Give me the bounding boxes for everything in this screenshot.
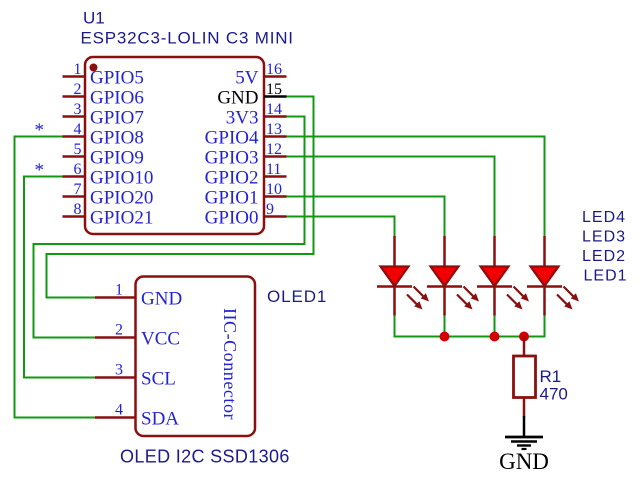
wire GPIO0 to LED1: [287, 217, 395, 237]
svg-text:*: *: [35, 160, 45, 181]
LED D2: [427, 236, 479, 316]
svg-text:6: 6: [74, 161, 82, 178]
svg-text:10: 10: [266, 181, 282, 198]
svg-text:GPIO20: GPIO20: [90, 187, 153, 208]
svg-text:ESP32C3-LOLIN C3 MINI: ESP32C3-LOLIN C3 MINI: [81, 29, 294, 48]
pin 9 GPIO0: [205, 201, 287, 228]
svg-text:IIC-Connector: IIC-Connector: [220, 308, 240, 420]
svg-text:14: 14: [266, 101, 282, 118]
svg-text:11: 11: [266, 161, 281, 178]
svg-text:LED1: LED1: [584, 268, 628, 285]
svg-text:LED2: LED2: [582, 248, 626, 265]
svg-text:470: 470: [540, 385, 568, 404]
pin 3 GPIO7: [63, 101, 144, 128]
svg-text:SCL: SCL: [141, 368, 176, 389]
svg-text:VCC: VCC: [141, 328, 180, 349]
pin 4 SDA (OLED): [95, 402, 179, 430]
svg-text:GND: GND: [217, 87, 258, 108]
pin 11 GPIO2: [205, 161, 287, 188]
pin 10 GPIO1: [205, 181, 287, 208]
pin 5 GPIO9: [63, 141, 144, 168]
wire GPIO3 to LED3: [287, 157, 495, 237]
svg-text:GPIO8: GPIO8: [90, 127, 144, 148]
connector OLED1 body: [136, 277, 256, 437]
svg-text:9: 9: [266, 201, 274, 218]
pin 7 GPIO20: [63, 181, 154, 208]
pin 13 GPIO4: [205, 121, 287, 148]
svg-text:GPIO7: GPIO7: [90, 107, 144, 128]
wire GPIO10 to SCL: [24, 177, 96, 378]
pin 4 GPIO8: [63, 121, 144, 148]
svg-text:GPIO1: GPIO1: [205, 187, 259, 208]
wire resistor to ground: [523, 398, 526, 418]
svg-text:GND: GND: [141, 288, 182, 309]
junction dot LED2 bus: [440, 332, 450, 342]
pin 6 GPIO10: [63, 161, 154, 188]
svg-text:13: 13: [266, 121, 282, 138]
pin 16 5V: [235, 61, 286, 88]
svg-text:GPIO3: GPIO3: [205, 147, 259, 168]
svg-text:OLED1: OLED1: [267, 287, 327, 306]
svg-text:3: 3: [115, 362, 123, 379]
svg-text:GPIO10: GPIO10: [90, 167, 153, 188]
wire GPIO1 to LED2: [287, 197, 445, 237]
svg-text:GPIO4: GPIO4: [205, 127, 259, 148]
LED D4: [527, 236, 579, 316]
svg-text:12: 12: [266, 141, 282, 158]
svg-text:GPIO0: GPIO0: [205, 207, 259, 228]
wire GND(15) to OLED GND: [47, 97, 314, 298]
resistor R1: [514, 356, 536, 398]
wire GPIO8 to SDA: [15, 137, 97, 418]
junction dot LED3 bus: [490, 332, 500, 342]
svg-text:3: 3: [74, 101, 82, 118]
svg-text:1: 1: [74, 61, 82, 78]
pin 15 GND: [217, 81, 286, 108]
wire 3V3 to OLED VCC: [34, 117, 305, 338]
svg-text:U1: U1: [83, 9, 105, 28]
svg-text:1: 1: [115, 282, 123, 299]
wire GPIO4 to LED4: [287, 137, 545, 237]
svg-text:R1: R1: [540, 367, 562, 386]
svg-text:4: 4: [74, 121, 82, 138]
svg-text:GPIO21: GPIO21: [90, 207, 153, 228]
svg-text:GPIO9: GPIO9: [90, 147, 144, 168]
pin 1 marker dot: [90, 64, 98, 72]
pin 1 GND (OLED): [95, 282, 182, 310]
svg-text:OLED I2C SSD1306: OLED I2C SSD1306: [120, 447, 290, 467]
wire LED2 cathode stub: [444, 316, 446, 337]
svg-text:8: 8: [74, 201, 82, 218]
svg-text:5V: 5V: [235, 67, 259, 88]
svg-text:2: 2: [115, 322, 123, 339]
svg-text:LED3: LED3: [582, 229, 626, 246]
svg-text:GPIO2: GPIO2: [205, 167, 259, 188]
svg-text:GND: GND: [499, 449, 549, 474]
svg-text:5: 5: [74, 141, 82, 158]
LED D3: [477, 236, 529, 316]
pin 2 GPIO6: [63, 81, 144, 108]
svg-text:*: *: [35, 120, 45, 141]
svg-text:15: 15: [266, 81, 282, 98]
svg-text:4: 4: [115, 402, 123, 419]
pin 2 VCC (OLED): [95, 322, 180, 350]
svg-text:GPIO6: GPIO6: [90, 87, 144, 108]
IC U1 body: [85, 57, 264, 234]
svg-text:GPIO5: GPIO5: [90, 67, 144, 88]
pin 12 GPIO3: [205, 141, 287, 168]
svg-text:3V3: 3V3: [226, 107, 259, 128]
svg-text:SDA: SDA: [141, 408, 179, 429]
pin 1 GPIO5: [63, 61, 144, 88]
pin 3 SCL (OLED): [95, 362, 176, 390]
LED D1: [377, 236, 429, 316]
svg-text:2: 2: [74, 81, 82, 98]
wire LED3 cathode stub: [494, 316, 496, 337]
wire bus to resistor: [523, 337, 526, 357]
svg-text:16: 16: [266, 61, 282, 78]
pin 14 3V3: [226, 101, 287, 128]
wire LED cathode bus: [395, 316, 545, 337]
ground symbol: [505, 437, 543, 449]
svg-text:LED4: LED4: [582, 209, 626, 226]
pin 8 GPIO21: [63, 201, 154, 228]
junction dot resistor bus: [519, 332, 529, 342]
svg-text:7: 7: [74, 181, 82, 198]
